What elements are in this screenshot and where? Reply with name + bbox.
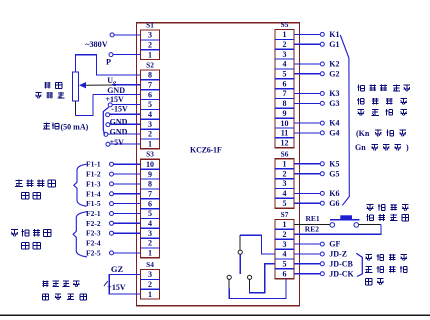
svg-text:1: 1 [148, 50, 152, 59]
svg-text:6: 6 [148, 90, 152, 99]
svg-text:S6: S6 [281, 149, 289, 158]
svg-text:F1-1: F1-1 [86, 160, 101, 169]
svg-text:K4: K4 [329, 119, 339, 128]
svg-text:F2-3: F2-3 [86, 229, 101, 238]
svg-text:S3: S3 [146, 150, 154, 159]
svg-text:4: 4 [283, 250, 287, 259]
svg-text:1: 1 [283, 160, 287, 169]
svg-text:1: 1 [283, 220, 287, 229]
svg-text:~380V: ~380V [85, 40, 108, 49]
svg-text:3: 3 [283, 240, 287, 249]
svg-text:G3: G3 [329, 99, 339, 108]
svg-text:2: 2 [148, 239, 152, 248]
svg-text:K2: K2 [329, 60, 339, 69]
svg-text:11: 11 [281, 129, 289, 138]
svg-text:S4: S4 [146, 260, 154, 269]
svg-text:K6: K6 [329, 189, 339, 198]
svg-text:G4: G4 [329, 129, 339, 138]
svg-text:6: 6 [283, 79, 287, 88]
svg-text:1: 1 [283, 30, 287, 39]
svg-text:4: 4 [148, 219, 152, 228]
svg-text:4: 4 [283, 189, 287, 198]
svg-text:2: 2 [148, 280, 152, 289]
svg-text:7: 7 [148, 190, 152, 199]
svg-text:F2-2: F2-2 [86, 219, 101, 228]
svg-text:3: 3 [283, 179, 287, 188]
svg-text:3: 3 [148, 229, 152, 238]
svg-text:8: 8 [283, 99, 287, 108]
svg-text:JD-CB: JD-CB [329, 259, 353, 268]
svg-text:+15V: +15V [106, 95, 125, 104]
svg-text:G5: G5 [329, 169, 339, 178]
svg-text:2: 2 [283, 40, 287, 49]
svg-text:F1-4: F1-4 [86, 189, 101, 198]
svg-text:GND: GND [110, 128, 128, 137]
svg-text:KCZ6-1F: KCZ6-1F [190, 145, 222, 154]
svg-text:): ) [406, 143, 409, 152]
svg-text:6: 6 [148, 199, 152, 208]
svg-text:5: 5 [148, 100, 152, 109]
svg-text:1: 1 [148, 249, 152, 258]
svg-text:F1-3: F1-3 [86, 179, 101, 188]
svg-text:1: 1 [148, 140, 152, 149]
svg-text:2: 2 [148, 130, 152, 139]
svg-text:K3: K3 [329, 89, 339, 98]
svg-text:10: 10 [146, 160, 154, 169]
svg-text:F1-2: F1-2 [86, 170, 101, 179]
svg-text:JD-Z: JD-Z [329, 250, 347, 259]
svg-text:2: 2 [148, 41, 152, 50]
svg-text:S5: S5 [281, 20, 289, 29]
svg-text:K1: K1 [329, 30, 339, 39]
svg-text:2: 2 [283, 230, 287, 239]
svg-text:9: 9 [148, 170, 152, 179]
svg-text:3: 3 [148, 120, 152, 129]
svg-text:3: 3 [283, 50, 287, 59]
svg-text:G6: G6 [329, 199, 339, 208]
svg-text:1: 1 [148, 290, 152, 299]
svg-text:GND: GND [107, 86, 125, 95]
svg-text:G1: G1 [329, 40, 339, 49]
svg-text:9: 9 [283, 109, 287, 118]
svg-text:8: 8 [148, 71, 152, 80]
svg-text:G2: G2 [329, 69, 339, 78]
svg-text:K5: K5 [329, 159, 339, 168]
svg-text:4: 4 [283, 60, 287, 69]
svg-text:+5V: +5V [110, 138, 125, 147]
svg-text:F2-5: F2-5 [86, 248, 101, 257]
svg-text:5: 5 [283, 199, 287, 208]
svg-text:7: 7 [283, 89, 287, 98]
svg-text:S1: S1 [146, 20, 154, 29]
svg-text:5: 5 [283, 260, 287, 269]
svg-text:JD-CK: JD-CK [329, 269, 354, 278]
svg-text:P: P [106, 57, 111, 66]
svg-text:F2-1: F2-1 [86, 209, 101, 218]
svg-text:7: 7 [148, 81, 152, 90]
svg-text:GF: GF [329, 240, 340, 249]
svg-text:(Kn: (Kn [356, 129, 370, 138]
svg-text:GZ: GZ [111, 264, 124, 274]
svg-text:8: 8 [148, 180, 152, 189]
svg-text:12: 12 [281, 139, 289, 148]
svg-text:GND: GND [110, 117, 128, 126]
svg-text:F1-5: F1-5 [86, 199, 101, 208]
svg-text:2: 2 [283, 169, 287, 178]
svg-text:5: 5 [148, 209, 152, 218]
svg-text:-15V: -15V [111, 105, 128, 114]
svg-text:RE2: RE2 [305, 225, 319, 234]
svg-text:3: 3 [148, 270, 152, 279]
svg-text:(50 mA): (50 mA) [61, 123, 89, 132]
svg-text:Gn: Gn [355, 143, 366, 152]
svg-text:6: 6 [283, 269, 287, 278]
svg-text:5: 5 [283, 70, 287, 79]
svg-text:F2-4: F2-4 [86, 239, 101, 248]
svg-text:+15V: +15V [107, 283, 126, 292]
svg-text:3: 3 [148, 31, 152, 40]
svg-text:10: 10 [281, 119, 289, 128]
svg-text:RE1: RE1 [306, 214, 320, 223]
svg-text:S7: S7 [281, 210, 289, 219]
svg-text:4: 4 [148, 110, 152, 119]
svg-text:S2: S2 [146, 60, 154, 69]
